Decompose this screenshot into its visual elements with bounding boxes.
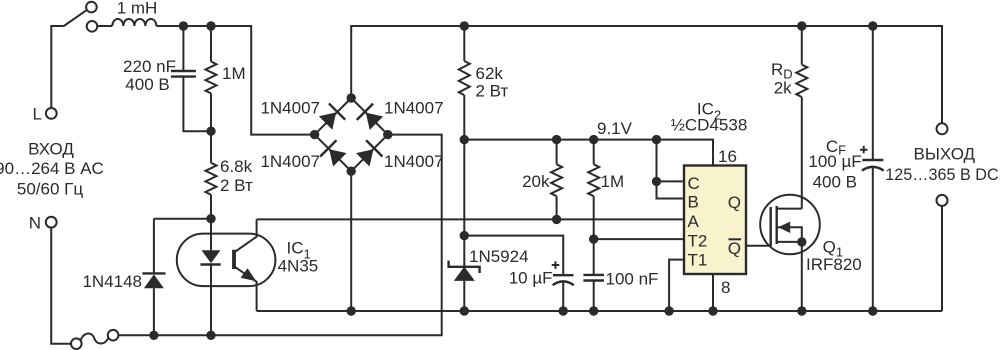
node dot C/B tap bbox=[652, 135, 661, 144]
switch S1 (upper pole, open) bbox=[64, 2, 97, 32]
svg-text:10 µF: 10 µF bbox=[509, 269, 553, 288]
output terminal plus bbox=[937, 123, 948, 134]
node dot MOSFET source bbox=[797, 306, 806, 315]
svg-text:1M: 1M bbox=[601, 172, 625, 191]
wire N to breaker bbox=[51, 227, 71, 344]
wire bridge DC- to negative rail bbox=[350, 171, 352, 311]
resistor 20k bbox=[551, 140, 562, 220]
svg-text:220 nF: 220 nF bbox=[123, 57, 176, 76]
svg-text:400 В: 400 В bbox=[125, 75, 169, 94]
svg-text:1N4007: 1N4007 bbox=[384, 99, 444, 118]
node dot 20k bottom on A wire bbox=[552, 215, 561, 224]
svg-text:16: 16 bbox=[718, 147, 737, 166]
wire C and B pins tap bbox=[657, 140, 685, 199]
node bridge DC- (bottom) bbox=[347, 167, 356, 176]
svg-text:T2: T2 bbox=[688, 231, 708, 250]
circuit breaker (lower switch pole) bbox=[71, 330, 118, 349]
resistor 1M timing bbox=[588, 140, 599, 240]
wire DC+ top rail bbox=[351, 26, 942, 124]
svg-text:C: C bbox=[688, 174, 700, 193]
node dot C3 bottom bbox=[589, 306, 598, 315]
svg-text:90…264 В AC: 90…264 В AC bbox=[0, 159, 104, 178]
svg-text:100 nF: 100 nF bbox=[606, 270, 659, 289]
svg-text:6.8k: 6.8k bbox=[220, 157, 253, 176]
inductor L1 1 mH bbox=[112, 19, 156, 26]
resistor 6.8k 2 Вт bbox=[206, 131, 217, 219]
svg-text:1N4148: 1N4148 bbox=[82, 272, 142, 291]
wire zener node to C2 bbox=[464, 236, 563, 276]
svg-text:4N35: 4N35 bbox=[278, 257, 319, 276]
optocoupler LED bbox=[200, 219, 220, 336]
node junction dot LED cathode bbox=[206, 331, 215, 340]
svg-text:1 mH: 1 mH bbox=[117, 0, 158, 18]
wire MOSFET source to rail bbox=[801, 242, 803, 311]
wire Qbar to gate bbox=[746, 245, 771, 247]
diode D2 1N4007 top-right bbox=[357, 104, 385, 132]
node bridge DC+ (top) bbox=[347, 93, 356, 102]
optocoupler IC1 4N35 body bbox=[177, 234, 276, 287]
resistor RD 2k bbox=[796, 26, 807, 97]
node dot zener bottom bbox=[460, 306, 469, 315]
wire pin 8 to rail bbox=[712, 274, 714, 311]
node dot 62k bottom bbox=[460, 135, 469, 144]
wire DC- rail bbox=[257, 310, 942, 312]
input terminal L bbox=[46, 108, 57, 119]
resistor 62k 2 Вт bbox=[459, 26, 470, 140]
label plus C2 bbox=[552, 261, 560, 269]
resistor 1M (input) bbox=[206, 26, 217, 131]
node junction dot at 1M top bbox=[206, 21, 215, 30]
wire zener branch bbox=[463, 140, 465, 236]
node bridge AC1 (left) bbox=[310, 130, 319, 139]
node dot T1 bottom bbox=[664, 306, 673, 315]
output terminal minus bbox=[937, 195, 948, 206]
diode D3 1N4007 bottom-left bbox=[320, 140, 348, 168]
svg-text:Q: Q bbox=[728, 239, 741, 258]
diode 1N4148 bbox=[142, 219, 165, 336]
node dot zener top bbox=[460, 231, 469, 240]
svg-text:N: N bbox=[29, 214, 41, 233]
wire 9.1V rail bbox=[464, 140, 713, 166]
svg-text:20k: 20k bbox=[522, 172, 550, 191]
svg-text:ВЫХОД: ВЫХОД bbox=[914, 145, 976, 164]
node dot 1M timing top bbox=[589, 135, 598, 144]
node dot 1M/C3/T2 bbox=[589, 234, 598, 243]
wire T1 pin to rail bbox=[669, 260, 684, 311]
svg-text:A: A bbox=[688, 212, 700, 231]
svg-text:50/60 Гц: 50/60 Гц bbox=[17, 180, 83, 199]
svg-text:125…365 В DC: 125…365 В DC bbox=[885, 166, 999, 184]
node junction dot 6.8k bottom bbox=[206, 214, 215, 223]
node dot pin8 bottom bbox=[708, 306, 717, 315]
svg-text:L: L bbox=[33, 105, 42, 124]
input terminal N bbox=[46, 217, 57, 228]
node dot top rail 62k bbox=[460, 21, 469, 30]
svg-text:8: 8 bbox=[721, 278, 730, 297]
zener diode 1N5924 bbox=[449, 236, 480, 311]
node junction dot after L1 bbox=[179, 21, 188, 30]
wire output minus to rail bbox=[941, 205, 943, 311]
node junction dot 220nF/1M/6.8k bbox=[206, 127, 215, 136]
svg-text:9.1V: 9.1V bbox=[597, 119, 633, 138]
node dot C2 bottom bbox=[559, 306, 568, 315]
svg-text:ВХОД: ВХОД bbox=[28, 140, 74, 159]
optocoupler phototransistor bbox=[234, 219, 257, 311]
wire A pin from optocoupler collector bbox=[257, 218, 684, 220]
svg-text:1N4007: 1N4007 bbox=[260, 152, 320, 171]
svg-text:½CD4538: ½CD4538 bbox=[671, 116, 748, 135]
node dot 20k top bbox=[552, 135, 561, 144]
wire L to switch bbox=[51, 26, 64, 108]
wire top-left rail (L1 to bridge AC1) bbox=[156, 26, 311, 135]
node bridge AC2 (right) bbox=[383, 130, 392, 139]
svg-text:62k: 62k bbox=[476, 64, 504, 83]
wire bottom N rail to bridge AC2 bbox=[118, 135, 441, 336]
svg-text:2 Вт: 2 Вт bbox=[220, 176, 253, 195]
svg-text:100 µF: 100 µF bbox=[808, 152, 861, 171]
node dot CF bottom bbox=[868, 306, 877, 315]
svg-text:2 Вт: 2 Вт bbox=[476, 82, 509, 101]
capacitor C2 10 µF electrolytic bbox=[553, 275, 574, 311]
capacitor 220 nF 400 V bbox=[171, 26, 211, 131]
svg-text:IRF820: IRF820 bbox=[806, 255, 862, 274]
node dot top rail CF bbox=[868, 21, 877, 30]
wire MOSFET drain to RD bbox=[801, 97, 803, 209]
IC2 box CD4538 bbox=[684, 166, 746, 275]
capacitor CF 100 µF 400 В bbox=[862, 26, 884, 311]
node dot top rail RD bbox=[797, 21, 806, 30]
node dot C pin tap bbox=[652, 177, 661, 186]
capacitor C3 100 nF bbox=[583, 239, 604, 311]
svg-text:1N5924: 1N5924 bbox=[469, 247, 529, 266]
node junction dot 1N4148 bottom bbox=[149, 331, 158, 340]
svg-text:Q: Q bbox=[728, 193, 741, 212]
svg-text:2k: 2k bbox=[774, 79, 792, 98]
wire switch to inductor bbox=[97, 25, 112, 27]
svg-text:B: B bbox=[688, 193, 699, 212]
svg-text:1M: 1M bbox=[222, 64, 246, 83]
svg-text:T1: T1 bbox=[688, 251, 708, 270]
diode D4 1N4007 bottom-right bbox=[355, 140, 383, 168]
bridge rectifier diamond wires bbox=[315, 98, 388, 171]
svg-text:400 В: 400 В bbox=[813, 173, 857, 192]
svg-text:1N4007: 1N4007 bbox=[260, 99, 320, 118]
wire node to 1N4148 bbox=[154, 218, 211, 220]
label plus CF bbox=[860, 146, 868, 154]
node dot bridge bottom on rail bbox=[347, 306, 356, 315]
wire T2 pin bbox=[594, 238, 684, 240]
svg-text:1N4007: 1N4007 bbox=[384, 152, 444, 171]
diode D1 1N4007 top-left bbox=[317, 103, 345, 131]
transistor Q1 IRF820 MOSFET bbox=[760, 195, 820, 255]
